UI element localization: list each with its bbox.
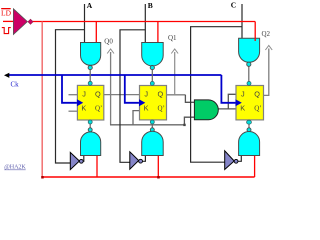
NAND gate G4 (load K side, stage 1) [81, 128, 101, 156]
flip-flop FF3 [236, 86, 264, 120]
wire Q0 J-stub FF1 [69, 94, 78, 96]
svg-text:K: K [240, 104, 245, 113]
wire input A vertical [84, 4, 86, 44]
svg-text:Q: Q [95, 90, 101, 99]
wire Ck drop to FF3 [221, 75, 235, 103]
svg-text:A: A [87, 1, 93, 10]
wire Q0 arrowhead [107, 49, 114, 54]
wire G1 bubble to FF1 top [89, 70, 91, 83]
svg-text:B: B [148, 1, 153, 10]
flip-flop FF2 [140, 86, 167, 120]
node junction Q0 lower [183, 124, 185, 126]
wire Ck rail [7, 74, 221, 76]
wire inverter1 output to G4 [82, 155, 85, 161]
node FF3 clear terminal [247, 120, 252, 124]
node FF3 preset terminal [247, 81, 251, 85]
svg-text:K: K [144, 104, 149, 113]
inverter U3 (stage 2 data) [130, 152, 143, 169]
node LD rail corner dot left [41, 176, 44, 179]
svg-text:Q’: Q’ [95, 105, 102, 113]
wire Q2 from FF3.Q [264, 49, 269, 96]
wire Ck drop to FF1 [62, 75, 77, 103]
NAND gate G6 (load K side, stage 3) [239, 128, 260, 156]
flip-flop FF1 [77, 85, 103, 120]
wire LD top rail [32, 21, 256, 23]
svg-text:J: J [82, 90, 86, 99]
node FF1 clear terminal [88, 120, 92, 124]
svg-text:Q: Q [158, 90, 164, 99]
wire LD drop to gate G3 [254, 22, 256, 41]
wire Q0 vertical arrow/feedback x=110.6 [110, 52, 112, 125]
node LD rail junction dot G5 [157, 176, 160, 179]
wire LD input [3, 20, 14, 22]
NAND gate G1 (load J side, stage 1) [81, 43, 101, 70]
wire input B vertical [144, 4, 146, 44]
wire LD left drop [41, 22, 43, 178]
wire Q2 arrowhead [265, 46, 272, 51]
wire Q1 arrowhead [171, 49, 178, 54]
wire FF3 bottom to G6 bubble [248, 122, 250, 128]
svg-text:Q’: Q’ [158, 105, 165, 113]
label LD with overline [1, 8, 12, 18]
wire LD stub into gate G3 [254, 38, 256, 41]
svg-text:J: J [241, 90, 245, 99]
wire FF2 bottom to G5 bubble [151, 122, 153, 128]
wire inverter3 output to G6 [238, 155, 242, 161]
wire G2 bubble to FF2 top [151, 70, 153, 83]
clock arrowhead FF2 [139, 99, 145, 106]
svg-text:Q1: Q1 [168, 34, 177, 42]
Ck port arrow [4, 73, 9, 78]
wire Q0 riser to FF2.K [133, 111, 140, 125]
wire G3 bubble to FF3 top [248, 66, 250, 83]
wire Q1 from FF2.Q [167, 94, 186, 96]
svg-text:K: K [81, 104, 86, 113]
wire Q1 step to AND gate upper input [185, 95, 194, 103]
wire Q0 from FF1.Q to FF2.J [104, 94, 140, 96]
svg-text:@HA2K: @HA2K [4, 165, 26, 171]
clock arrowhead FF3 [236, 99, 242, 106]
inverter U4 (stage 3 data) [225, 151, 238, 170]
wire C branch to inverter 3 [191, 27, 242, 163]
svg-text:Q: Q [254, 90, 260, 99]
inverter U2 (stage 1 data) [70, 152, 83, 169]
wire LD riser to gate G5 [157, 155, 159, 178]
wire FF1 bottom to G4 bubble [89, 122, 91, 128]
svg-text:Q0: Q0 [104, 38, 113, 46]
wire Q0 riser to AND gate lower input [184, 117, 194, 125]
NAND gate G2 (load J side, stage 2) [142, 43, 164, 70]
wire B branch to inverter 2 [120, 30, 145, 163]
NAND gate G3 (load J side, stage 3) [239, 38, 260, 66]
NAND gate G5 (load K side, stage 2) [142, 128, 164, 156]
wire LD riser to gate G4 [96, 155, 98, 178]
wire input C vertical [241, 4, 243, 40]
svg-text:Q’: Q’ [254, 105, 261, 113]
node FF2 clear terminal [150, 120, 154, 124]
svg-text:Q2: Q2 [262, 30, 271, 38]
svg-text:Ck: Ck [11, 80, 20, 88]
wire LD riser to gate G6 [254, 155, 256, 178]
node FF2 preset terminal [150, 81, 154, 85]
clock arrowhead FF1 [77, 99, 83, 106]
wire A branch to inverter 1 [56, 30, 85, 163]
svg-text:C: C [231, 1, 236, 10]
wire LD drop to gate G1 [95, 22, 97, 45]
wire K-stub FF1 [69, 110, 78, 112]
svg-text:LD: LD [1, 9, 12, 18]
wire Q1 arrow vertical [174, 52, 176, 95]
wire AND output to FF3 [218, 108, 236, 110]
LD pulse symbol [2, 28, 11, 34]
wire inverter2 output to G5 [142, 155, 145, 161]
node FF1 preset terminal [88, 81, 92, 85]
wire LD drop to gate G2 [157, 22, 159, 45]
wire Q0 lower distribution y=125.2 [110, 124, 184, 126]
AND gate G7 (Q0.Q1 for stage 3) [194, 100, 218, 120]
svg-text:J: J [144, 90, 148, 99]
wire Ck drop to FF2 [125, 75, 139, 103]
wire AND output riser to FF3.J [228, 94, 236, 109]
wire LD bottom rail [42, 176, 254, 178]
inverter U1 (LD input) [13, 9, 33, 35]
